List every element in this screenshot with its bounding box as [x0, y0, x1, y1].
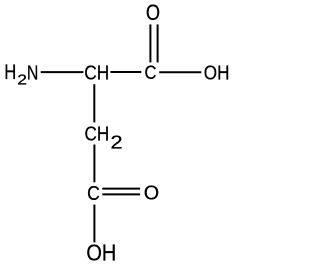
- svg-text:N: N: [27, 60, 38, 84]
- svg-text:CH: CH: [85, 122, 110, 145]
- svg-text:C: C: [87, 183, 100, 206]
- svg-text:O: O: [144, 182, 159, 205]
- svg-text:2: 2: [111, 133, 123, 153]
- svg-text:O: O: [146, 2, 160, 26]
- svg-text:C: C: [145, 62, 157, 84]
- svg-text:H: H: [4, 61, 16, 84]
- svg-text:OH: OH: [204, 61, 230, 84]
- svg-text:OH: OH: [86, 240, 116, 266]
- svg-text:2: 2: [17, 72, 27, 88]
- svg-text:CH: CH: [84, 62, 109, 85]
